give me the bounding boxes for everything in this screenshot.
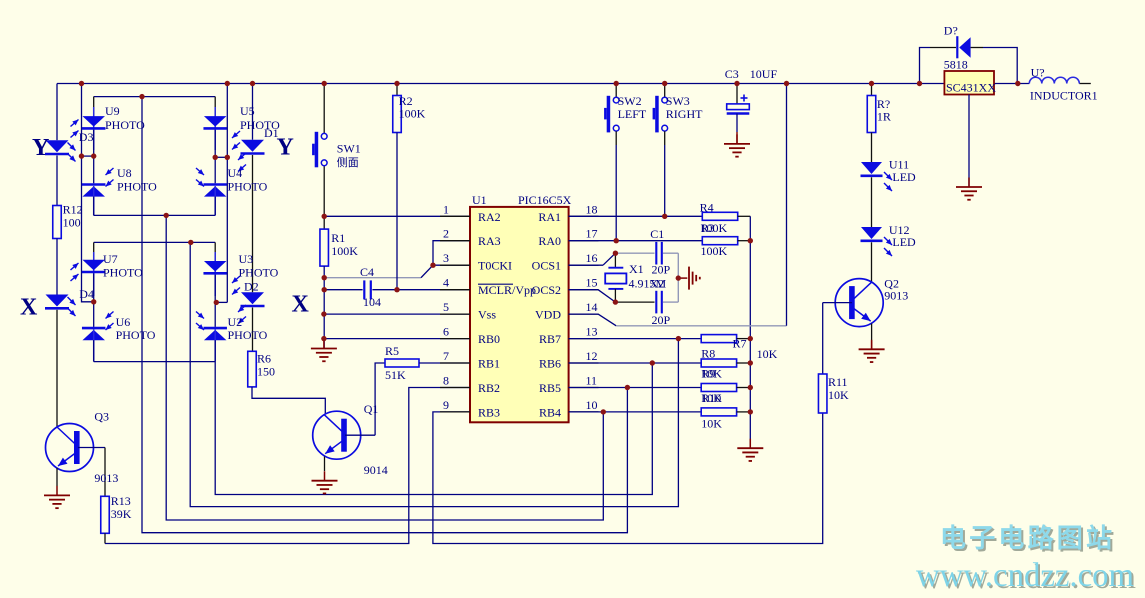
svg-text:R13: R13 <box>111 494 131 508</box>
svg-text:U9: U9 <box>105 104 120 118</box>
svg-text:100K: 100K <box>701 244 728 258</box>
svg-text:U4: U4 <box>228 166 243 180</box>
svg-text:15: 15 <box>586 276 598 290</box>
svg-text:PHOTO: PHOTO <box>117 180 157 194</box>
svg-text:18: 18 <box>586 202 598 216</box>
svg-text:INDUCTOR1: INDUCTOR1 <box>1030 89 1098 103</box>
svg-text:10UF: 10UF <box>750 67 778 81</box>
svg-text:RB0: RB0 <box>478 332 500 346</box>
svg-text:RA2: RA2 <box>478 210 501 224</box>
svg-text:51K: 51K <box>385 368 406 382</box>
svg-text:RIGHT: RIGHT <box>666 107 703 121</box>
svg-text:100: 100 <box>63 216 81 230</box>
svg-text:SW2: SW2 <box>618 94 642 108</box>
svg-text:3: 3 <box>443 251 449 265</box>
svg-text:1: 1 <box>443 202 449 216</box>
svg-text:C4: C4 <box>360 265 374 279</box>
svg-text:U7: U7 <box>103 252 118 266</box>
svg-text:6: 6 <box>443 325 449 339</box>
svg-text:104: 104 <box>363 295 381 309</box>
svg-text:MCLR/Vpp: MCLR/Vpp <box>478 283 536 297</box>
svg-text:X1: X1 <box>629 262 644 276</box>
svg-text:U3: U3 <box>239 252 254 266</box>
svg-text:T0CKI: T0CKI <box>478 259 512 273</box>
svg-text:SC431XX: SC431XX <box>946 81 996 95</box>
svg-text:5: 5 <box>443 300 449 314</box>
svg-text:RA3: RA3 <box>478 234 501 248</box>
svg-text:10K: 10K <box>701 417 722 431</box>
svg-text:U6: U6 <box>116 315 131 329</box>
svg-text:Q1: Q1 <box>364 402 379 416</box>
svg-text:9014: 9014 <box>364 463 388 477</box>
svg-text:D?: D? <box>944 24 958 38</box>
svg-text:D4: D4 <box>79 287 94 301</box>
svg-text:150: 150 <box>257 365 275 379</box>
svg-text:11: 11 <box>586 374 598 388</box>
svg-text:9013: 9013 <box>884 289 908 303</box>
svg-text:20P: 20P <box>652 263 671 277</box>
svg-text:U?: U? <box>1031 66 1045 80</box>
svg-text:LED: LED <box>892 170 916 184</box>
svg-text:PHOTO: PHOTO <box>239 266 279 280</box>
svg-text:PHOTO: PHOTO <box>103 266 143 280</box>
svg-text:C1: C1 <box>650 227 664 241</box>
svg-text:VDD: VDD <box>535 308 561 322</box>
svg-text:X: X <box>292 292 310 318</box>
svg-text:R4: R4 <box>700 201 714 215</box>
svg-text:X: X <box>20 295 38 321</box>
svg-text:OCS1: OCS1 <box>532 259 561 273</box>
svg-text:8: 8 <box>443 374 449 388</box>
svg-text:SW3: SW3 <box>666 94 690 108</box>
svg-text:12: 12 <box>586 349 598 363</box>
svg-text:C3: C3 <box>725 67 739 81</box>
svg-text:R10: R10 <box>701 391 721 405</box>
svg-text:20P: 20P <box>652 313 671 327</box>
svg-text:10K: 10K <box>757 347 778 361</box>
svg-text:电子电路图站: 电子电路图站 <box>940 523 1115 553</box>
svg-text:RB3: RB3 <box>478 405 500 419</box>
svg-text:RB7: RB7 <box>539 332 561 346</box>
svg-text:U2: U2 <box>228 315 243 329</box>
svg-text:PHOTO: PHOTO <box>116 328 156 342</box>
svg-text:R3: R3 <box>701 221 715 235</box>
svg-text:100K: 100K <box>331 244 358 258</box>
svg-text:U1: U1 <box>472 193 487 207</box>
svg-text:PHOTO: PHOTO <box>228 328 268 342</box>
svg-text:OCS2: OCS2 <box>532 283 561 297</box>
svg-text:D3: D3 <box>79 130 94 144</box>
svg-text:U5: U5 <box>240 104 255 118</box>
svg-text:www.cndzz.com: www.cndzz.com <box>916 557 1134 594</box>
svg-text:R9: R9 <box>701 367 715 381</box>
svg-text:R5: R5 <box>385 344 399 358</box>
svg-text:14: 14 <box>586 300 598 314</box>
svg-text:RB5: RB5 <box>539 381 561 395</box>
svg-text:RB4: RB4 <box>539 405 561 419</box>
svg-text:R12: R12 <box>63 203 83 217</box>
svg-text:4: 4 <box>443 276 449 290</box>
svg-text:17: 17 <box>586 227 598 241</box>
svg-text:Y: Y <box>32 135 49 161</box>
svg-text:Vss: Vss <box>478 308 496 322</box>
svg-text:D2: D2 <box>244 280 259 294</box>
svg-text:PHOTO: PHOTO <box>228 180 268 194</box>
svg-text:R11: R11 <box>828 375 848 389</box>
svg-text:16: 16 <box>586 251 598 265</box>
svg-text:LED: LED <box>892 235 916 249</box>
svg-text:100K: 100K <box>399 107 426 121</box>
svg-text:Q3: Q3 <box>94 409 109 423</box>
svg-text:2: 2 <box>443 227 449 241</box>
svg-text:1R: 1R <box>877 110 891 124</box>
svg-text:PIC16C5X: PIC16C5X <box>518 193 572 207</box>
svg-text:R8: R8 <box>701 347 715 361</box>
svg-text:SW1: SW1 <box>337 142 361 156</box>
svg-text:U8: U8 <box>117 166 132 180</box>
svg-text:RA1: RA1 <box>538 210 561 224</box>
svg-text:39K: 39K <box>111 507 132 521</box>
svg-text:PHOTO: PHOTO <box>105 118 145 132</box>
svg-text:RB2: RB2 <box>478 381 500 395</box>
svg-text:R1: R1 <box>331 231 345 245</box>
svg-text:R7: R7 <box>733 337 747 351</box>
svg-text:13: 13 <box>586 325 598 339</box>
svg-text:R6: R6 <box>257 352 271 366</box>
svg-text:LEFT: LEFT <box>618 107 647 121</box>
svg-text:7: 7 <box>443 349 449 363</box>
svg-text:RA0: RA0 <box>538 234 561 248</box>
svg-text:RB6: RB6 <box>539 357 561 371</box>
svg-text:10K: 10K <box>828 388 849 402</box>
svg-text:Y: Y <box>277 135 294 161</box>
svg-text:侧面: 侧面 <box>337 156 359 169</box>
svg-text:5818: 5818 <box>944 58 968 72</box>
svg-text:X2: X2 <box>650 277 665 291</box>
svg-text:RB1: RB1 <box>478 357 500 371</box>
svg-text:9013: 9013 <box>94 471 118 485</box>
svg-text:9: 9 <box>443 398 449 412</box>
svg-text:10: 10 <box>586 398 598 412</box>
